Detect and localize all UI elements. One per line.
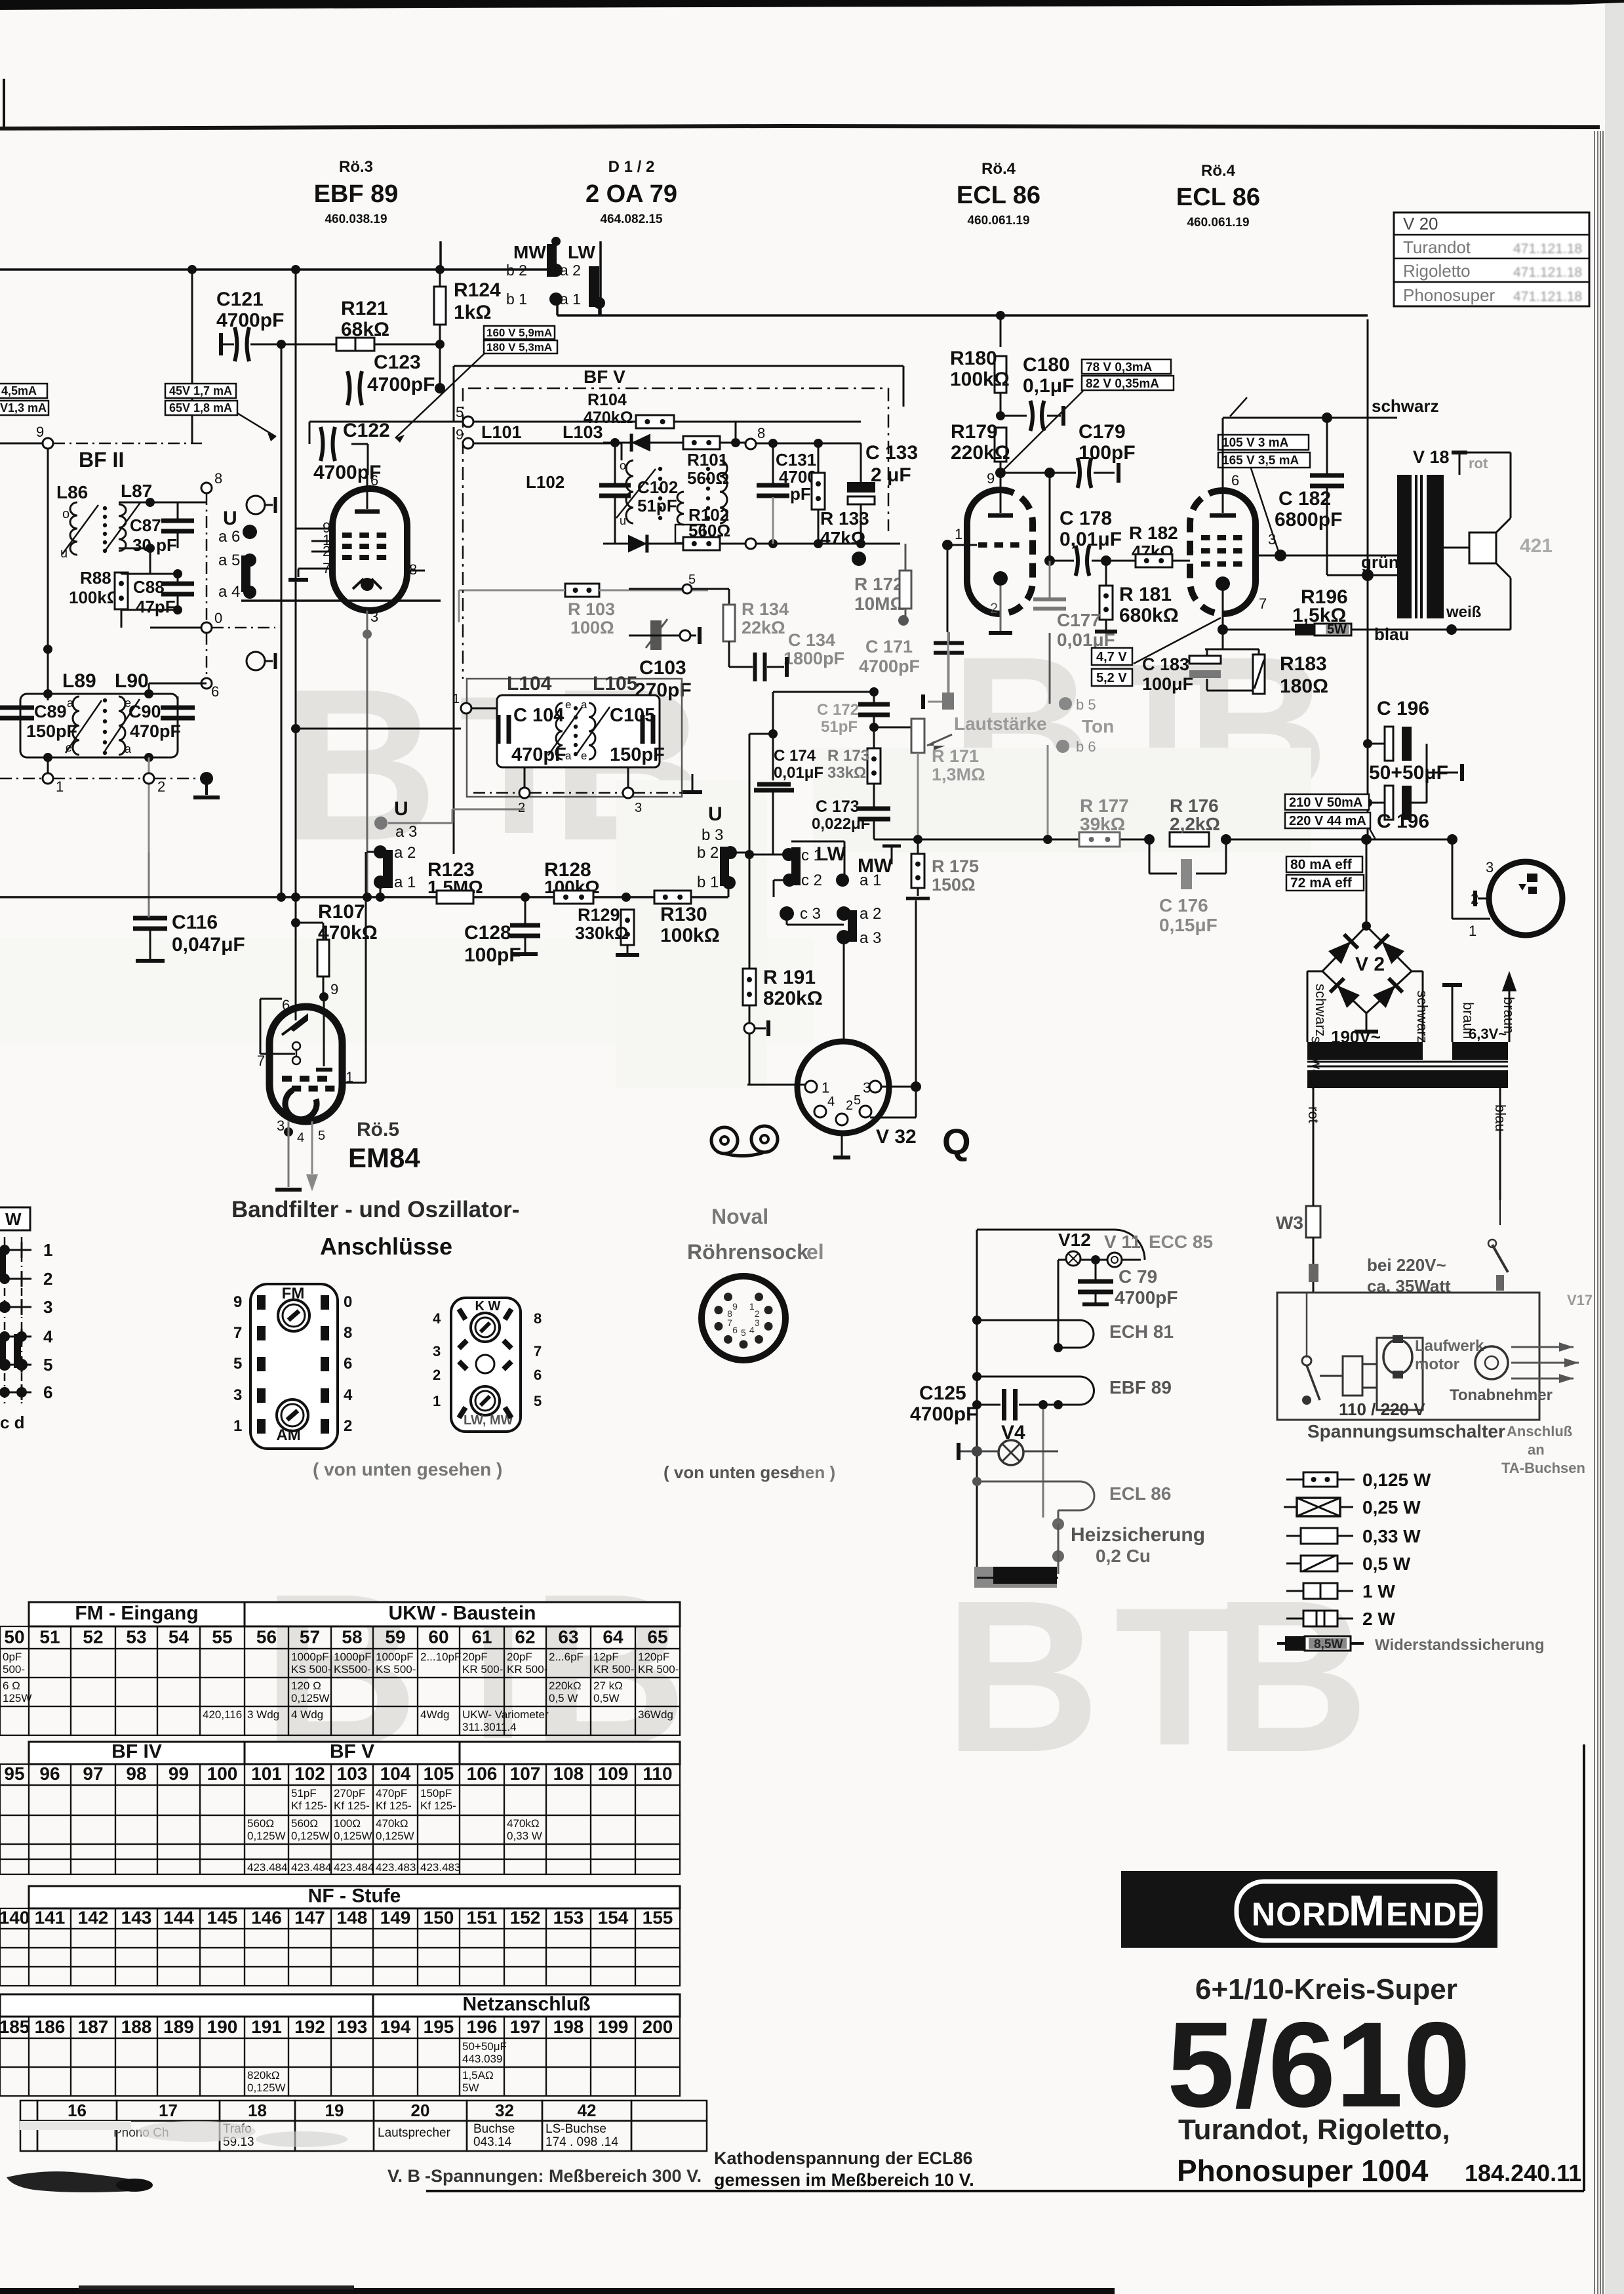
svg-text:R183: R183 [1280,653,1327,675]
svg-text:4: 4 [433,1310,441,1327]
svg-text:KR 500-: KR 500- [462,1663,503,1676]
svg-text:R 172: R 172 [854,574,903,594]
svg-text:16: 16 [68,2101,87,2120]
svg-text:2 W: 2 W [1362,1609,1395,1629]
svg-text:UKW - Baustein: UKW - Baustein [389,1603,536,1624]
svg-text:189: 189 [163,2017,194,2037]
svg-text:4: 4 [344,1386,353,1404]
svg-text:6: 6 [282,997,290,1013]
svg-text:TA-Buchsen: TA-Buchsen [1501,1460,1585,1476]
svg-text:1: 1 [433,1393,441,1409]
anode first ECL86 [988,513,1013,518]
svg-text:150Ω: 150Ω [932,875,976,895]
svg-text:5/610: 5/610 [1167,1998,1471,2133]
diode D1 (2OA79 half) [603,442,684,444]
svg-text:LW: LW [816,843,846,865]
capacitor C89 [0,706,34,710]
terminal link bars [0,1251,6,1280]
svg-text:97: 97 [83,1763,103,1784]
main HT wire y1280 [1048,839,1149,841]
svg-text:50: 50 [4,1627,24,1647]
svg-text:198: 198 [553,2017,584,2037]
noval pin dots [755,1293,763,1301]
svg-text:174 . 098 .14: 174 . 098 .14 [545,2135,618,2149]
svg-text:Anschluß: Anschluß [1507,1423,1572,1439]
svg-text:150pF: 150pF [610,744,665,765]
svg-text:2...6pF: 2...6pF [549,1651,584,1663]
capacitor C105 [641,715,645,744]
svg-text:R 176: R 176 [1170,795,1219,816]
svg-text:149: 149 [380,1907,411,1927]
svg-text:6: 6 [43,1382,52,1402]
svg-text:1000pF: 1000pF [291,1651,329,1663]
left vertical of switch block [749,733,773,735]
title block borders [426,2190,1584,2192]
bottom scanner bar [0,2288,1115,2294]
grun node [1367,319,1369,575]
resistor R121 [336,338,374,351]
svg-text:a: a [565,750,572,762]
svg-text:6: 6 [732,1325,738,1335]
C182 bottom wire to transformer [1327,574,1397,576]
svg-text:EBF 89: EBF 89 [1109,1377,1172,1398]
svg-text:V. B: V. B [387,2166,420,2186]
svg-text:192: 192 [294,2017,325,2037]
svg-text:e: e [66,741,72,754]
svg-text:C 172: C 172 [817,701,859,719]
svg-text:2 μF: 2 μF [871,464,911,486]
svg-text:C88: C88 [133,577,165,597]
svg-text:423.484: 423.484 [291,1861,331,1874]
svg-text:0,125W: 0,125W [291,1692,330,1704]
svg-text:110: 110 [643,1763,672,1784]
wire pin5 bus right [473,421,636,423]
svg-text:L87: L87 [121,481,152,501]
dash-dot enclosure BF IV lower [467,679,682,797]
wire a2 to EM84 pin1 [366,852,368,856]
svg-text:C89: C89 [34,702,67,721]
svg-text:141: 141 [35,1907,66,1927]
arrows to TA [1511,1346,1574,1348]
svg-text:R 171: R 171 [932,746,979,766]
legend 1W [1286,1590,1303,1592]
voltage boxes 45V/65V [165,384,236,398]
svg-text:6800pF: 6800pF [1275,509,1342,531]
binding crease lines right edge [1594,131,1595,2294]
switch MW b2/b1 contact [547,244,557,277]
6,3V winding block [1452,1042,1508,1060]
svg-text:42: 42 [578,2101,597,2120]
legend 0,125W [1286,1479,1303,1481]
potentiometer R171 [911,719,924,753]
FM circle [278,1300,309,1331]
svg-text:186: 186 [35,2017,66,2037]
resistor R129 [621,910,634,945]
BF V outer box [454,365,903,367]
svg-text:4700pF: 4700pF [859,656,920,676]
svg-text:560Ω: 560Ω [687,468,729,488]
svg-text:a: a [581,698,587,711]
coupling dots L86-L87 [103,506,107,510]
svg-text:45V 1,7 mA: 45V 1,7 mA [169,384,232,397]
svg-text:20pF: 20pF [462,1651,488,1663]
svg-text:Rö.4: Rö.4 [981,160,1016,178]
svg-text:KS 500-: KS 500- [291,1663,331,1676]
svg-text:R 133: R 133 [820,508,869,529]
page top border rule [0,124,1600,131]
svg-text:4: 4 [43,1327,53,1346]
svg-text:C 174: C 174 [774,747,816,765]
svg-text:330kΩ: 330kΩ [575,923,629,943]
wire pin9 to L101 [473,443,622,445]
svg-text:160 V 5,9mA: 160 V 5,9mA [486,327,552,339]
svg-text:FM: FM [282,1285,305,1302]
svg-text:C 173: C 173 [816,797,860,816]
resistor R177 gray [1079,832,1120,847]
210V/220V boxes [1285,794,1369,810]
svg-text:Turandot, Rigoletto,: Turandot, Rigoletto, [1178,2114,1450,2146]
svg-text:151: 151 [467,1907,498,1927]
wire C178 to pin8 of output tube [1106,560,1190,562]
coupling dots L102-L103 [706,467,710,471]
svg-text:2: 2 [157,778,165,795]
svg-text:R179: R179 [951,421,998,443]
svg-text:60: 60 [428,1627,448,1647]
svg-text:ECH 81: ECH 81 [1109,1321,1174,1342]
svg-text:100Ω: 100Ω [570,618,614,637]
svg-text:M: M [1349,1886,1385,1935]
svg-text:BF V: BF V [330,1741,374,1762]
svg-text:D 1 / 2: D 1 / 2 [608,158,655,176]
capacitor C176 bypass [1149,839,1151,874]
resistor R124 [434,287,446,325]
svg-text:c 2: c 2 [801,872,822,889]
capacitor C177 gray [1033,597,1066,601]
svg-text:460.061.19: 460.061.19 [967,214,1029,228]
table bottom connectors [20,2101,37,2121]
svg-text:4,5mA: 4,5mA [1,384,37,397]
svg-text:C125: C125 [919,1382,966,1404]
svg-text:155: 155 [643,1907,673,1927]
svg-text:Rö.4: Rö.4 [1201,162,1236,180]
svg-text:e: e [581,750,587,762]
svg-text:KR 500-: KR 500- [593,1663,634,1676]
svg-text:U: U [394,798,408,820]
svg-text:423.484: 423.484 [334,1861,374,1874]
svg-text:V12: V12 [1058,1230,1091,1250]
svg-text:3: 3 [755,1318,760,1328]
svg-text:0,125 W: 0,125 W [1362,1470,1431,1490]
svg-text:464.082.15: 464.082.15 [600,212,663,226]
svg-text:Bandfilter - und Oszillator: Bandfilter - und Oszillator- [231,1197,519,1222]
svg-text:L90: L90 [115,670,149,692]
svg-text:5,2 V: 5,2 V [1096,671,1127,685]
table BF IV / BF V [29,1742,245,1764]
svg-text:184.240.11: 184.240.11 [1465,2160,1581,2186]
svg-text:30 pF: 30 pF [132,535,177,555]
svg-text:C180: C180 [1023,354,1070,376]
svg-text:2,2kΩ: 2,2kΩ [1170,814,1220,834]
resistor R173 [867,748,881,784]
svg-text:4700pF: 4700pF [910,1403,978,1425]
svg-text:FM - Eingang: FM - Eingang [75,1603,198,1624]
svg-text:500-: 500- [3,1663,25,1676]
wire down to y1150 then to C196 [1222,630,1223,691]
L104 box [497,695,660,767]
resistor R101 [683,436,720,449]
svg-text:Kf 125-: Kf 125- [376,1800,412,1812]
svg-text:5W: 5W [462,2082,479,2094]
motor [1396,1357,1397,1358]
wire top of audio coupling [773,691,874,693]
svg-text:1,5AΩ: 1,5AΩ [462,2069,494,2082]
switch b2/b1 contact [720,847,729,886]
FM/AM connector outline [250,1284,338,1449]
table NF-Stufe [29,1886,680,1908]
svg-text:LW, MW: LW, MW [464,1413,513,1428]
svg-text:104: 104 [380,1763,411,1784]
svg-text:b 5: b 5 [1076,696,1096,713]
transformer secondary winding block [971,971,1322,972]
svg-text:0,33 W: 0,33 W [507,1830,542,1842]
mains wires down to switch box [1313,1200,1314,1220]
svg-text:c d: c d [0,1413,25,1432]
svg-text:Turandot: Turandot [1403,237,1471,257]
svg-text:U: U [223,508,237,529]
svg-text:421: 421 [1520,535,1553,557]
top bus corner to v18 [557,315,1368,316]
svg-text:6: 6 [211,683,219,700]
svg-text:100μF: 100μF [1142,674,1193,694]
svg-text:R 175: R 175 [932,856,979,876]
wire verticals down from C121/C123 junctions [281,443,283,897]
svg-text:R 182: R 182 [1129,523,1178,543]
svg-text:a 4: a 4 [218,583,240,601]
svg-text:3: 3 [277,1117,285,1134]
callout 165V box to pin3 [1251,468,1279,553]
left heater bus [976,1230,978,1582]
svg-text:V 20: V 20 [1403,214,1438,233]
svg-text:36Wdg: 36Wdg [638,1708,673,1721]
bottom left smudge [7,2171,151,2192]
top black scanner bar [0,0,1624,10]
svg-text:C 196: C 196 [1377,811,1429,832]
svg-text:2...10pF: 2...10pF [420,1651,461,1663]
svg-text:65V 1,8 mA: 65V 1,8 mA [169,401,232,414]
svg-text:0,125W: 0,125W [291,1830,330,1842]
phone jack top [247,496,265,514]
svg-text:C87: C87 [130,515,161,535]
wire from a1 to right bus [557,314,1368,317]
svg-text:0,5W: 0,5W [593,1692,620,1704]
wire to c1 [749,854,787,856]
svg-text:3 Wdg: 3 Wdg [247,1708,279,1721]
black censor blob [974,1567,1057,1588]
svg-text:blau: blau [1374,624,1409,644]
voltage selector internals [1343,1356,1362,1396]
svg-text:0,125W: 0,125W [376,1830,414,1842]
svg-text:8: 8 [727,1308,732,1319]
svg-text:220 V 44 mA: 220 V 44 mA [1289,814,1366,828]
tube EM84 Rö.5 [269,1007,342,1121]
wire MW-LW top [241,599,441,602]
svg-text:R107: R107 [318,901,365,923]
svg-text:a 2: a 2 [560,262,581,279]
svg-text:a: a [67,696,74,710]
svg-text:Buchse: Buchse [473,2122,515,2136]
grid dashes [978,542,987,548]
svg-text:147: 147 [294,1907,325,1927]
svg-text:Kf 125-: Kf 125- [291,1800,327,1812]
svg-text:MW: MW [513,242,546,262]
svg-text:5: 5 [233,1355,242,1373]
svg-text:ECL 86: ECL 86 [1176,184,1260,211]
pin 6 [201,678,212,689]
T symbol above a1 [891,845,893,864]
svg-text:u: u [620,514,626,527]
svg-text:C 134: C 134 [788,630,835,650]
resistor R191 [743,969,756,1005]
svg-text:154: 154 [598,1907,629,1927]
svg-text:Kf 125-: Kf 125- [334,1800,370,1812]
svg-text:a 3: a 3 [395,823,417,841]
svg-text:107: 107 [510,1763,541,1784]
svg-text:5: 5 [854,1093,861,1108]
svg-text:51pF: 51pF [637,496,677,515]
svg-text:78 V 0,3mA: 78 V 0,3mA [1086,361,1153,374]
svg-text:ECL 86: ECL 86 [1109,1483,1171,1504]
svg-text:Netzanschluß: Netzanschluß [462,1993,590,2015]
coupling dots L101-L102 [658,467,662,471]
svg-text:BF V: BF V [584,367,625,387]
svg-text:KR 500-: KR 500- [638,1663,679,1676]
svg-text:a 2: a 2 [860,905,881,923]
svg-text:63: 63 [558,1627,578,1647]
svg-text:( von unten gesehen ): ( von unten gesehen ) [313,1459,502,1479]
wire down from R183/C183 node [1222,630,1223,754]
resistor R181 [1099,586,1113,620]
svg-text:150: 150 [424,1907,454,1927]
speaker [1469,533,1496,563]
svg-text:b 3: b 3 [702,826,723,844]
left edge corner mark [3,79,5,129]
NORDMENDE logo box [1121,1871,1497,1948]
wires from verticals to box [296,728,461,730]
svg-text:a 2: a 2 [394,844,416,862]
svg-text:b 2: b 2 [697,844,719,862]
svg-text:R 181: R 181 [1119,584,1172,605]
speaker connector V21 [1489,862,1562,935]
svg-text:T: T [1115,1566,1235,1786]
svg-text:101: 101 [251,1763,282,1784]
svg-text:b 2: b 2 [506,262,527,279]
svg-text:Anschlüsse: Anschlüsse [320,1233,452,1260]
svg-text:V17: V17 [1567,1292,1593,1308]
svg-text:64: 64 [603,1627,624,1647]
svg-text:195: 195 [424,2017,454,2037]
svg-text:C90: C90 [129,702,161,721]
svg-text:AM: AM [276,1426,300,1444]
V11 lamp [1107,1253,1122,1267]
svg-text:100Ω: 100Ω [334,1817,361,1830]
svg-text:471.121.18: 471.121.18 [1513,265,1582,280]
svg-text:0,25 W: 0,25 W [1362,1497,1421,1518]
svg-text:32: 32 [495,2101,514,2120]
svg-text:R130: R130 [660,904,707,925]
svg-text:2: 2 [990,600,998,616]
main NF bus wire y=1368 [0,896,437,898]
svg-text:C 171: C 171 [865,637,913,656]
svg-text:c 3: c 3 [800,905,821,923]
svg-text:460.038.19: 460.038.19 [325,212,387,226]
svg-text:7: 7 [233,1324,242,1342]
ground right of box [692,774,694,790]
svg-text:0,5 W: 0,5 W [1362,1554,1411,1574]
svg-text:72 mA eff: 72 mA eff [1290,875,1353,891]
svg-text:4Wdg: 4Wdg [420,1708,449,1721]
svg-text:C177: C177 [1057,610,1101,630]
svg-text:0,125W: 0,125W [334,1830,372,1842]
svg-text:C 176: C 176 [1159,895,1208,916]
svg-text:R104: R104 [587,391,627,409]
dash-dot line BF II to pin 8 [53,443,202,445]
svg-text:0,047μF: 0,047μF [172,934,245,956]
svg-text:191: 191 [251,2017,282,2037]
wire from cathode7 down to R196 [1222,625,1223,649]
V12 lamp [1066,1251,1080,1266]
switch LW a2/a1 contact [589,266,599,307]
svg-text:5: 5 [318,1129,325,1143]
svg-text:( von unten gese: ( von unten gese [663,1462,799,1482]
svg-text:187: 187 [78,2017,109,2037]
svg-text:R 103: R 103 [568,599,615,619]
ground below pin area [200,772,213,785]
svg-text:62: 62 [515,1627,535,1647]
c3 and a2/a3 contacts [780,906,794,921]
svg-text:1,3MΩ: 1,3MΩ [932,765,985,784]
svg-text:199: 199 [598,2017,629,2037]
svg-text:9: 9 [233,1293,242,1311]
svg-text:pF: pF [790,484,811,504]
svg-text:220kΩ: 220kΩ [549,1680,582,1692]
svg-text:3: 3 [43,1297,52,1317]
svg-text:0,1μF: 0,1μF [1023,375,1074,397]
svg-text:V 2: V 2 [1355,954,1385,975]
svg-text:el: el [806,1240,824,1264]
svg-text:420,116: 420,116 [203,1708,242,1721]
capacitor C90 [161,706,195,710]
svg-text:470kΩ: 470kΩ [376,1817,408,1830]
svg-text:R124: R124 [454,279,501,301]
EBF89 grid dashes [342,533,352,538]
resistor R130 [654,891,691,904]
anode pin6 wire to top rail [1222,418,1224,491]
cathode [993,571,1008,586]
svg-text:17: 17 [159,2101,178,2120]
svg-text:UKW- Variometer: UKW- Variometer [462,1708,549,1721]
legend 2W [1286,1618,1303,1620]
box pins 1 2 3 [461,703,471,714]
svg-text:180 V 5,3mA: 180 V 5,3mA [486,341,552,353]
svg-text:51pF: 51pF [821,718,858,736]
legend Widerstandssicherung [1277,1642,1289,1645]
svg-text:6 Ω: 6 Ω [3,1680,20,1692]
svg-text:Rö.5: Rö.5 [357,1119,399,1140]
wire y829 to R172 [900,544,901,570]
KW circle [471,1313,500,1342]
svg-text:51: 51 [39,1627,60,1647]
DIN socket V32 [797,1041,889,1133]
